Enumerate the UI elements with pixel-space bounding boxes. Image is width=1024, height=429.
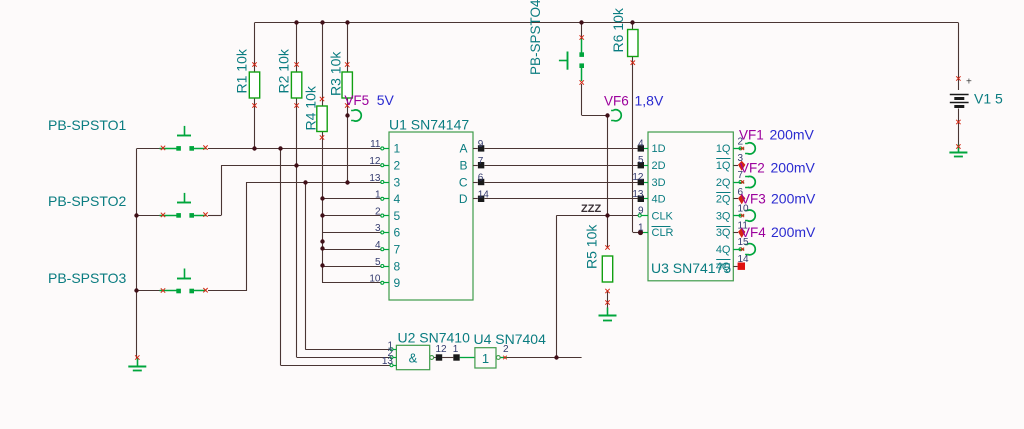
svg-text:V1 5: V1 5 xyxy=(974,91,1003,107)
svg-text:VF2: VF2 xyxy=(740,161,765,176)
svg-text:VF6: VF6 xyxy=(604,94,629,109)
svg-text:VF5: VF5 xyxy=(344,93,369,108)
svg-text:14: 14 xyxy=(478,190,490,201)
svg-text:+: + xyxy=(966,77,972,88)
svg-text:12: 12 xyxy=(369,156,381,167)
svg-text:ZZZ: ZZZ xyxy=(581,203,601,215)
svg-text:1: 1 xyxy=(375,190,381,201)
svg-text:5: 5 xyxy=(394,209,401,223)
svg-text:1: 1 xyxy=(482,351,489,366)
svg-text:1: 1 xyxy=(453,344,459,355)
svg-text:9: 9 xyxy=(638,206,644,217)
svg-text:3D: 3D xyxy=(652,177,666,189)
svg-text:PB-SPSTO2: PB-SPSTO2 xyxy=(48,193,127,209)
svg-text:2Q: 2Q xyxy=(716,194,731,206)
svg-text:PB-SPSTO1: PB-SPSTO1 xyxy=(48,117,127,133)
svg-text:VF4: VF4 xyxy=(741,225,766,240)
svg-text:200mV: 200mV xyxy=(771,160,816,176)
svg-text:R5 10k: R5 10k xyxy=(584,224,600,269)
svg-text:D: D xyxy=(459,192,468,206)
svg-text:9: 9 xyxy=(478,139,484,150)
svg-text:&: & xyxy=(409,350,418,365)
svg-text:6: 6 xyxy=(478,173,484,184)
svg-text:11: 11 xyxy=(370,139,381,150)
svg-text:8: 8 xyxy=(394,259,401,273)
svg-text:13: 13 xyxy=(632,189,644,200)
svg-text:2D: 2D xyxy=(652,160,666,172)
svg-text:13: 13 xyxy=(369,173,381,184)
svg-text:5V: 5V xyxy=(377,92,395,108)
svg-text:4: 4 xyxy=(375,240,381,251)
svg-text:B: B xyxy=(459,159,467,173)
svg-text:2: 2 xyxy=(375,206,381,217)
svg-text:3Q: 3Q xyxy=(716,210,731,222)
svg-text:U2 SN7410: U2 SN7410 xyxy=(398,330,471,346)
svg-text:200mV: 200mV xyxy=(771,224,816,240)
svg-text:R4 10k: R4 10k xyxy=(303,85,319,130)
svg-text:VF1: VF1 xyxy=(739,128,764,143)
svg-text:R3 10k: R3 10k xyxy=(328,51,344,96)
svg-text:2: 2 xyxy=(394,159,401,173)
svg-text:R6 10k: R6 10k xyxy=(610,7,626,52)
svg-text:5: 5 xyxy=(638,155,644,166)
svg-text:10: 10 xyxy=(369,274,381,285)
svg-text:7: 7 xyxy=(394,243,401,257)
svg-text:13: 13 xyxy=(382,356,394,367)
svg-text:7: 7 xyxy=(478,156,484,167)
svg-text:C: C xyxy=(459,175,468,189)
svg-text:12: 12 xyxy=(436,344,448,355)
svg-text:1,8V: 1,8V xyxy=(635,93,664,109)
svg-text:2: 2 xyxy=(503,344,509,355)
svg-text:U4 SN7404: U4 SN7404 xyxy=(474,331,547,347)
svg-text:1Q: 1Q xyxy=(716,160,731,172)
svg-text:A: A xyxy=(459,142,467,156)
svg-text:2Q: 2Q xyxy=(716,177,731,189)
svg-text:3Q: 3Q xyxy=(716,227,731,239)
svg-text:4Q: 4Q xyxy=(716,244,731,256)
svg-text:1Q: 1Q xyxy=(716,143,731,155)
svg-text:3: 3 xyxy=(394,175,401,189)
svg-text:4: 4 xyxy=(638,138,644,149)
svg-text:9: 9 xyxy=(394,276,401,290)
svg-text:R1 10k: R1 10k xyxy=(233,48,249,93)
svg-text:1D: 1D xyxy=(652,143,666,155)
svg-text:200mV: 200mV xyxy=(770,127,815,143)
svg-text:U1 SN74147: U1 SN74147 xyxy=(389,117,469,133)
svg-text:12: 12 xyxy=(632,172,644,183)
svg-text:4: 4 xyxy=(394,192,401,206)
svg-text:14: 14 xyxy=(738,254,750,265)
svg-text:R2 10k: R2 10k xyxy=(276,48,292,93)
svg-text:VF3: VF3 xyxy=(741,192,766,207)
svg-text:3: 3 xyxy=(375,223,381,234)
svg-text:200mV: 200mV xyxy=(771,191,816,207)
svg-text:CLR: CLR xyxy=(652,227,674,239)
svg-text:CLK: CLK xyxy=(652,210,674,222)
svg-text:1: 1 xyxy=(394,142,401,156)
svg-text:6: 6 xyxy=(394,226,401,240)
svg-text:4Q: 4Q xyxy=(716,261,731,273)
svg-text:PB-SPSTO3: PB-SPSTO3 xyxy=(48,270,127,286)
svg-text:1: 1 xyxy=(638,222,644,233)
svg-text:PB-SPSTO4: PB-SPSTO4 xyxy=(528,0,543,75)
svg-text:5: 5 xyxy=(375,257,381,268)
svg-text:4D: 4D xyxy=(652,194,666,206)
